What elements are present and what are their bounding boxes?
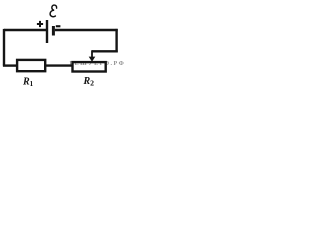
minus sign: [56, 25, 61, 27]
battery long plate (+): [46, 20, 48, 43]
battery short plate (-): [52, 26, 55, 36]
plus sign: [37, 21, 43, 27]
resistor R2 (rheostat track): [73, 62, 106, 71]
wire: R1 to R2: [45, 64, 73, 66]
EMF label script E: [50, 5, 57, 17]
wire: left vertical: [3, 29, 5, 66]
wire: battery + terminal to top-left corner: [4, 29, 47, 31]
svg-text:R2: R2: [83, 76, 95, 88]
wire: right vertical: [115, 29, 117, 53]
wire: battery - terminal to top-right corner: [55, 29, 118, 31]
wire: bottom-left horizontal to R1: [3, 64, 18, 66]
resistor R1: [17, 60, 45, 71]
rheostat wiper arrow shaft: [91, 50, 93, 57]
wire: lower horizontal to wiper: [92, 50, 118, 52]
rheostat wiper arrowhead: [89, 57, 96, 62]
